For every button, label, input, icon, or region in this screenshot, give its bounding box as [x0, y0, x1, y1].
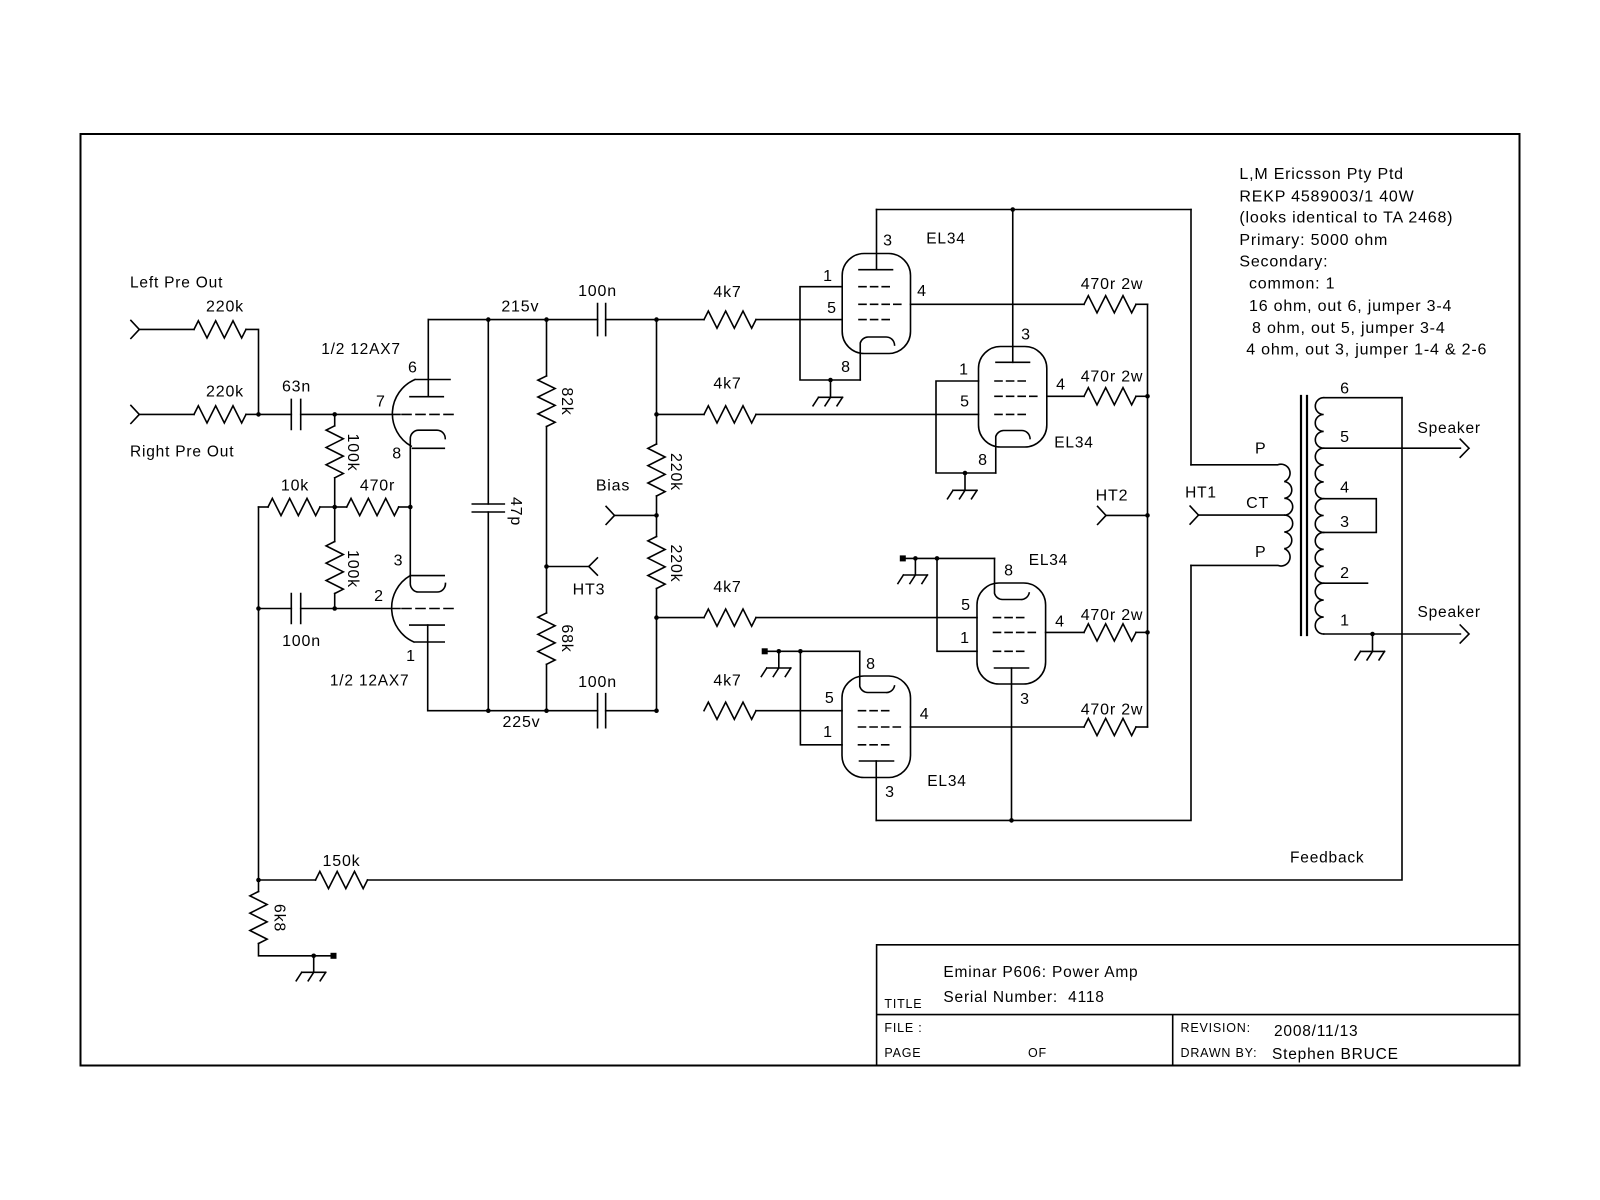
svg-text:3: 3 — [1020, 691, 1030, 708]
svg-text:OF: OF — [1028, 1046, 1047, 1060]
svg-text:Eminar P606: Power Amp: Eminar P606: Power Amp — [943, 964, 1138, 981]
resistor R 4k7 (V2 feed) — [704, 406, 756, 423]
tube U1b grid (dashed) — [402, 608, 453, 610]
node: HT3 junction — [544, 564, 549, 569]
resistor R 4k7 (V3 feed) — [657, 617, 705, 619]
resistor R 100k (lower grid leak) — [334, 507, 336, 542]
tube V3 plate bar — [995, 667, 1029, 669]
wire: plate top rail — [877, 209, 1192, 211]
resistor R 220k (left input) — [194, 321, 246, 338]
svg-text:470r 2w: 470r 2w — [1081, 607, 1144, 624]
svg-text:Bias: Bias — [596, 478, 630, 495]
wire: V2 pin1 to box — [936, 381, 996, 473]
wire: 470r rail — [1147, 304, 1149, 727]
tube U1b plate lead to 225v rail — [428, 625, 489, 711]
svg-text:4: 4 — [1056, 377, 1066, 394]
port: Left Pre Out connector — [131, 320, 139, 338]
resistor R 220k (right input) — [194, 406, 246, 423]
svg-text:4k7: 4k7 — [713, 673, 741, 690]
svg-text:1/2 12AX7: 1/2 12AX7 — [330, 673, 410, 690]
svg-text:4: 4 — [917, 283, 927, 300]
transformer T1 core — [1301, 396, 1307, 635]
svg-text:REKP 4589003/1 40W: REKP 4589003/1 40W — [1239, 188, 1414, 205]
svg-text:1: 1 — [406, 648, 416, 665]
transformer T1 secondary winding — [1315, 398, 1324, 634]
svg-text:common: 1: common: 1 — [1249, 276, 1335, 293]
svg-text:63n: 63n — [282, 379, 311, 396]
wire: tap 6 lead to feedback rail — [1324, 397, 1402, 399]
resistor R 82k — [546, 320, 548, 376]
wire: V4 pin8/cathode wiring — [762, 648, 768, 654]
tube V4 EL34 envelope — [842, 676, 911, 778]
wire: tap 2 stub — [1324, 582, 1368, 584]
title block frame — [877, 945, 1520, 1066]
svg-text:220k: 220k — [206, 384, 244, 401]
wire: feedback rail from tap 6 — [368, 398, 1403, 880]
wire: taps 3-4 jumper — [1324, 499, 1377, 533]
node: 470r rail junction (V2) — [1145, 394, 1150, 399]
tube V4 grid3 (dashed) — [859, 744, 893, 746]
transformer T1 primary winding — [1191, 464, 1293, 566]
svg-text:8: 8 — [392, 445, 402, 462]
tube V4 grid2 (dashed) — [859, 726, 904, 728]
node: 100k/10k/470r junction — [332, 505, 337, 510]
wire: V3 pin1 box — [937, 558, 977, 651]
svg-text:2008/11/13: 2008/11/13 — [1274, 1023, 1358, 1040]
svg-text:470r 2w: 470r 2w — [1081, 702, 1144, 719]
arrowhead speaker (bottom) — [1460, 625, 1469, 643]
tube U1a cathode — [410, 430, 445, 507]
svg-text:1/2 12AX7: 1/2 12AX7 — [321, 341, 401, 358]
ground (V4 cathode) — [761, 651, 791, 676]
svg-text:EL34: EL34 — [927, 773, 966, 790]
svg-text:1: 1 — [959, 362, 969, 379]
wire: 225v rail — [488, 710, 597, 712]
svg-text:100n: 100n — [578, 674, 617, 691]
resistor R 470r 2w (V1) — [1084, 296, 1136, 313]
wire: 215v rail — [428, 319, 597, 321]
port HT1 — [1190, 506, 1198, 524]
svg-text:5: 5 — [827, 300, 837, 317]
tube V3 grid3 (dashed) — [994, 650, 1028, 652]
tube V4 plate bar — [860, 760, 894, 762]
wire: V4 pin4 to 470r — [911, 726, 1085, 728]
svg-text:8: 8 — [866, 656, 876, 673]
wire: Bias stub — [615, 514, 657, 516]
tube V1 grid2 (dashed) — [859, 303, 904, 305]
svg-text:TITLE: TITLE — [884, 997, 922, 1011]
svg-text:P: P — [1255, 544, 1266, 561]
svg-text:CT: CT — [1246, 495, 1269, 512]
node: cathode junction dot — [408, 505, 413, 510]
wire: Left Pre Out input lead — [139, 328, 194, 330]
tube U1a 1/2 12AX7 envelope — [392, 380, 450, 449]
node: V2 plate junction — [1010, 207, 1015, 212]
ground (secondary) — [1355, 634, 1385, 660]
tube V1 plate bar — [859, 269, 893, 271]
svg-text:225v: 225v — [503, 714, 541, 731]
resistor R 470r 2w (V3) — [1084, 624, 1136, 641]
svg-text:8: 8 — [841, 359, 851, 376]
wire: Right Pre Out input lead — [139, 413, 194, 415]
svg-text:EL34: EL34 — [1054, 435, 1093, 452]
svg-text:100k: 100k — [344, 550, 361, 588]
node: HT2 junction — [1145, 513, 1150, 518]
svg-text:Left Pre Out: Left Pre Out — [130, 275, 223, 292]
wire: junction to 100n (left) — [259, 608, 292, 610]
node: 82k top junction — [544, 317, 549, 322]
tube V1 EL34 envelope — [842, 254, 910, 354]
resistor R 4k7 (V4 feed) — [704, 702, 756, 719]
wire: 220k right to junction — [246, 413, 259, 415]
node: left rail / 100n junction — [256, 606, 261, 611]
svg-text:10k: 10k — [281, 478, 309, 495]
node: V4 ground junction — [777, 649, 782, 654]
terminal square (6k8 ground) — [331, 953, 337, 959]
tube V4 cathode (top) — [860, 651, 895, 692]
resistor R 6k8 — [258, 880, 260, 892]
wire: transformer left rail (top) — [1190, 210, 1192, 465]
tube V2 cathode — [996, 430, 1030, 473]
svg-text:470r: 470r — [360, 478, 395, 495]
tube V1 grid1 (dashed) — [859, 286, 893, 288]
svg-text:82k: 82k — [558, 387, 575, 415]
resistor R 100k (upper grid leak) — [334, 414, 336, 425]
node: 4k7 feed junction (top) — [654, 317, 659, 322]
wire: tap 1 lead to speaker — [1324, 633, 1461, 635]
svg-text:220k: 220k — [667, 453, 684, 491]
svg-text:REVISION:: REVISION: — [1181, 1021, 1251, 1035]
wire: junction to 63n — [259, 413, 292, 415]
node: 47p top junction — [486, 317, 491, 322]
svg-text:6k8: 6k8 — [271, 904, 288, 932]
svg-text:P: P — [1255, 441, 1266, 458]
svg-text:100n: 100n — [282, 633, 321, 650]
tube V1 plate lead — [876, 210, 878, 270]
svg-text:8 ohm, out 5, jumper 3-4: 8 ohm, out 5, jumper 3-4 — [1252, 320, 1446, 337]
svg-text:1: 1 — [960, 630, 970, 647]
wire: tap 5 lead to speaker — [1324, 447, 1461, 449]
tube U1b cathode — [410, 507, 445, 592]
svg-text:6: 6 — [408, 360, 418, 377]
svg-text:100k: 100k — [344, 434, 361, 472]
tube V3 cathode (top) — [995, 558, 1030, 599]
tube V1 cathode — [860, 337, 894, 380]
svg-text:5: 5 — [825, 690, 835, 707]
svg-text:Speaker: Speaker — [1418, 420, 1481, 437]
svg-text:Feedback: Feedback — [1290, 850, 1364, 867]
svg-text:(looks identical to TA 2468): (looks identical to TA 2468) — [1239, 210, 1453, 227]
tube V2 grid2 (dashed) — [995, 395, 1040, 397]
node: input junction dot — [256, 412, 261, 417]
svg-text:3: 3 — [394, 553, 404, 570]
node: grid node dot (100k top) — [332, 412, 337, 417]
wire: CT lead — [1199, 514, 1285, 516]
svg-text:470r 2w: 470r 2w — [1081, 276, 1144, 293]
svg-text:8: 8 — [1004, 563, 1014, 580]
port HT2 — [1098, 506, 1106, 524]
tube V3 EL34 envelope — [977, 583, 1046, 684]
node: 4k7#3 junction — [654, 615, 659, 620]
svg-text:HT1: HT1 — [1185, 485, 1217, 502]
tube U1b 1/2 12AX7 envelope — [392, 576, 445, 642]
svg-text:3: 3 — [883, 233, 893, 250]
wire: V1 pin4 to 470r — [911, 303, 1085, 305]
wire: grid node to tube V1a grid — [335, 413, 400, 415]
svg-text:5: 5 — [1340, 429, 1350, 446]
wire: V3 pin8/cathode wiring — [900, 555, 906, 561]
svg-text:215v: 215v — [501, 299, 539, 316]
wire: left rail 10k down to feedback row — [258, 507, 260, 880]
svg-text:2: 2 — [374, 588, 384, 605]
ground (V1 cathode) — [813, 380, 843, 406]
svg-text:Serial Number: 4118: Serial Number: 4118 — [943, 989, 1104, 1006]
wire: 220k to input junction — [246, 329, 259, 414]
arrowhead speaker (top) — [1460, 439, 1469, 457]
node: lower grid node dot — [332, 606, 337, 611]
capacitor C 100n (top) — [598, 304, 606, 336]
node: V3 ground junction — [913, 556, 918, 561]
tube V4 grid1 (dashed) — [859, 710, 893, 712]
svg-text:5: 5 — [960, 394, 970, 411]
tube U1a grid (dashed) — [402, 413, 453, 415]
resistor R 470r 2w (V2) — [1084, 388, 1136, 405]
svg-text:4: 4 — [1055, 614, 1065, 631]
resistor R 470r (cathode) — [335, 506, 347, 508]
wire: bottom plate rail — [876, 565, 1191, 820]
svg-text:EL34: EL34 — [1029, 552, 1068, 569]
ground (V3 cathode) — [898, 558, 928, 583]
tube V2 grid1 (dashed) — [995, 380, 1029, 382]
resistor R 68k — [546, 567, 548, 613]
svg-text:4k7: 4k7 — [713, 376, 741, 393]
tube V3 grid1 (dashed) — [994, 617, 1028, 619]
svg-text:FILE :: FILE : — [884, 1021, 922, 1035]
tube V2 plate bar — [996, 361, 1030, 363]
svg-text:Secondary:: Secondary: — [1239, 253, 1328, 270]
tube U1a plate lead — [427, 320, 429, 397]
wire: 4k7 rail down — [656, 320, 658, 415]
resistor R 150k (feedback) — [316, 871, 368, 888]
svg-text:1: 1 — [823, 724, 833, 741]
tube V4 plate lead — [875, 761, 877, 820]
svg-text:100n: 100n — [578, 283, 617, 300]
resistor R 220k (lower bias divider) — [656, 515, 658, 536]
capacitor C 47p and rail — [487, 320, 489, 504]
svg-text:Primary: 5000 ohm: Primary: 5000 ohm — [1239, 232, 1388, 249]
svg-text:EL34: EL34 — [926, 231, 965, 248]
resistor R 4k7 (V1 feed) — [657, 319, 705, 321]
wire: 100n to 4k7 junction — [606, 319, 657, 321]
svg-text:5: 5 — [961, 597, 971, 614]
resistor R 220k (upper bias divider) — [656, 414, 658, 444]
node: V2 cathode ground junction — [963, 471, 968, 476]
svg-text:DRAWN BY:: DRAWN BY: — [1181, 1046, 1258, 1060]
wire: V1 pin1 to box — [800, 287, 860, 380]
wire: V4 pin1 box — [800, 651, 842, 745]
svg-text:PAGE: PAGE — [884, 1046, 921, 1060]
node: feedback/6k8 junction — [256, 878, 261, 883]
svg-text:Right Pre Out: Right Pre Out — [130, 444, 234, 461]
svg-text:470r 2w: 470r 2w — [1081, 369, 1144, 386]
node: Bias junction — [654, 513, 659, 518]
svg-text:L,M Ericsson Pty Ptd: L,M Ericsson Pty Ptd — [1239, 166, 1404, 183]
svg-text:47p: 47p — [507, 497, 524, 526]
tube V3 plate lead — [1011, 668, 1013, 820]
tube V3 grid2 (dashed) — [994, 631, 1039, 633]
capacitor C 100n (bottom) — [598, 694, 606, 728]
svg-text:3: 3 — [885, 784, 895, 801]
svg-text:150k: 150k — [323, 853, 361, 870]
tube V2 EL34 envelope — [979, 347, 1047, 448]
wire: 63n to grid node — [301, 413, 335, 415]
wire: HT2 stub — [1106, 514, 1148, 516]
capacitor C 63n — [291, 399, 300, 429]
tube V1 grid3 (dashed) — [859, 319, 893, 321]
svg-text:4k7: 4k7 — [713, 284, 741, 301]
svg-text:1: 1 — [823, 268, 833, 285]
node: 470r rail junction (V3) — [1145, 630, 1150, 635]
tube V2 plate lead — [1012, 210, 1014, 363]
node: 4k7#4 junction — [654, 708, 659, 713]
svg-text:3: 3 — [1340, 514, 1350, 531]
svg-text:HT3: HT3 — [573, 582, 606, 599]
wire: 100n to 4k7#4 junction — [606, 710, 657, 712]
wire: 100n to lower grid node — [301, 608, 335, 610]
svg-text:4k7: 4k7 — [713, 579, 741, 596]
wire: to tube V1b grid — [335, 608, 400, 610]
port: Right Pre Out connector — [131, 405, 139, 423]
node: 68k bottom junction — [544, 708, 549, 713]
ground (V2 cathode) — [948, 473, 978, 499]
svg-text:7: 7 — [376, 394, 386, 411]
node: V3 pin1 tie junction — [935, 556, 940, 561]
tube U1a plate bar — [410, 396, 443, 398]
node: 6k8 ground junction — [311, 954, 316, 959]
svg-text:16 ohm, out 6, jumper 3-4: 16 ohm, out 6, jumper 3-4 — [1249, 298, 1452, 315]
resistor R 470r 2w (V4) — [1084, 718, 1136, 735]
wire: rail to 225v row — [656, 618, 658, 711]
svg-text:2: 2 — [1340, 565, 1350, 582]
node: tap1 ground junction — [1370, 632, 1375, 637]
wire: HT3 stub — [547, 566, 589, 568]
svg-text:4: 4 — [1340, 480, 1350, 497]
svg-text:3: 3 — [1021, 327, 1031, 344]
svg-text:4 ohm, out 3, jumper 1-4 & 2-6: 4 ohm, out 3, jumper 1-4 & 2-6 — [1246, 342, 1487, 359]
tube U1b plate bar — [410, 624, 444, 626]
svg-text:8: 8 — [978, 452, 988, 469]
node: V1 cathode ground junction — [828, 378, 833, 383]
resistor R 10k — [259, 506, 269, 508]
svg-text:220k: 220k — [667, 545, 684, 583]
node: 4k7#2 junction — [654, 412, 659, 417]
svg-text:Stephen BRUCE: Stephen BRUCE — [1272, 1046, 1399, 1063]
wire: V3 pin4 to 470r — [1046, 631, 1084, 633]
svg-text:68k: 68k — [558, 624, 575, 652]
ground (6k8) — [296, 956, 326, 981]
svg-text:HT2: HT2 — [1096, 488, 1129, 505]
svg-text:1: 1 — [1340, 613, 1350, 630]
wire: V2 pin4 to 470r — [1047, 395, 1084, 397]
svg-text:220k: 220k — [206, 299, 244, 316]
node: V3 plate junction — [1009, 818, 1014, 823]
port Bias — [606, 506, 614, 524]
svg-text:4: 4 — [920, 706, 930, 723]
capacitor C 100n (left) — [291, 594, 300, 624]
node: 47p bottom junction — [486, 708, 491, 713]
svg-text:Speaker: Speaker — [1418, 604, 1481, 621]
tube V2 grid3 (dashed) — [995, 413, 1029, 415]
svg-text:6: 6 — [1340, 381, 1350, 398]
node: V4 pin1 tie junction — [798, 649, 803, 654]
port HT3 — [589, 558, 598, 575]
